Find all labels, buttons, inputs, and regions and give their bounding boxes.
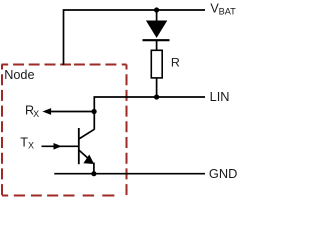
wire: VBAT rail to diode anode: [156, 10, 158, 21]
node RX junction: [92, 109, 97, 114]
wire: node stub up from boundary and VBAT top rail: [64, 10, 206, 65]
transistor Q1 emitter lead (diagonal): [79, 150, 93, 162]
wire: resistor to LIN rail: [156, 78, 158, 97]
svg-text:LIN: LIN: [210, 89, 230, 104]
node boundary left edge: [1, 65, 3, 196]
svg-text:GND: GND: [209, 166, 237, 181]
TX arrowhead (points right): [54, 143, 62, 150]
wire: RX branch: [50, 111, 95, 113]
transistor Q1 base bar: [78, 128, 80, 164]
wire: GND rail: [54, 173, 205, 175]
svg-text:BAT: BAT: [219, 7, 237, 17]
svg-text:R: R: [171, 56, 180, 70]
wire: emitter to GND rail: [93, 163, 95, 174]
wire: diode cathode to resistor: [156, 40, 158, 50]
svg-text:X: X: [33, 109, 39, 119]
node boundary bottom edge: [2, 195, 114, 197]
node VBAT junction: [154, 7, 159, 12]
node boundary right edge: [126, 65, 128, 196]
transistor Q1 emitter arrowhead: [83, 155, 94, 165]
wire: LIN rail: [94, 97, 205, 130]
node GND junction: [91, 171, 96, 176]
diode cathode bar: [143, 39, 170, 41]
svg-text:X: X: [28, 141, 34, 151]
node boundary (dashed red box) top edge: [1, 64, 126, 66]
diode D (anode up, cathode down): [146, 21, 167, 38]
RX arrowhead (points left): [42, 108, 51, 115]
resistor R (body): [151, 50, 162, 78]
transistor Q1 collector lead (diagonal): [79, 129, 95, 139]
svg-text:T: T: [20, 135, 28, 149]
node LIN junction: [154, 94, 159, 99]
wire: TX base line: [42, 145, 79, 147]
svg-text:Node: Node: [4, 68, 34, 82]
